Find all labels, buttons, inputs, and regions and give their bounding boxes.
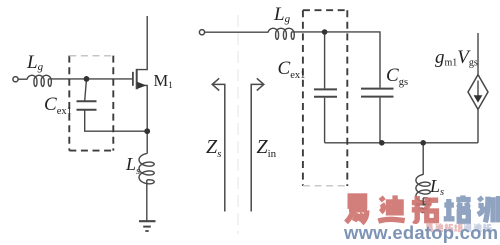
bottom wire	[325, 142, 478, 144]
inductor Lg (left)	[27, 75, 51, 86]
watermark red text 易迪拓 培训	[346, 196, 367, 223]
wire input to Lg right	[205, 31, 269, 33]
input terminal right	[199, 30, 204, 35]
transistor M1 gate bar	[132, 72, 134, 86]
label Lg (right)	[274, 4, 290, 26]
Zin arrow	[251, 84, 264, 211]
top wire to Cgs corner	[291, 32, 380, 88]
wire below source	[477, 109, 479, 142]
wire junction to Cex1	[324, 32, 326, 88]
wire to ground	[146, 180, 148, 221]
current source arrow	[477, 81, 479, 97]
wire to Cex1	[85, 80, 87, 101]
dashed box right: left edge	[303, 10, 347, 186]
inductor Ls (left)	[139, 154, 154, 184]
wire Cex1 to source node	[85, 111, 148, 132]
source wire	[137, 85, 148, 153]
dashed box left: bottom edge	[69, 150, 113, 152]
wire Ls down	[422, 143, 424, 175]
dashed box right: bottom edge (faded)	[303, 185, 347, 187]
ground (left)	[139, 220, 156, 222]
label M1	[154, 71, 173, 91]
junction dot top right	[322, 29, 328, 35]
label Ls (right)	[430, 176, 444, 198]
junction dot Ls top	[420, 140, 426, 146]
capacitor Cex1 (left) plates	[77, 100, 97, 102]
inductor Ls (right)	[416, 175, 430, 202]
dashed box right: top edge	[303, 9, 347, 11]
source arrow of M1	[137, 82, 146, 89]
watermark small pink text row	[426, 224, 432, 232]
label Cgs	[386, 65, 408, 88]
dashed box left: left edge	[69, 56, 113, 151]
dashed box right: right edge	[346, 10, 348, 186]
inductor Lg (right)	[268, 28, 294, 39]
wire Cgs down	[379, 98, 381, 143]
dashed box left: right edge	[112, 56, 114, 151]
wire Cex1 down	[324, 98, 326, 143]
current source arrowhead	[474, 95, 483, 102]
faint centre fold line	[237, 15, 239, 234]
label gm1Vgs	[435, 47, 478, 69]
label Cex1 (right)	[278, 58, 306, 81]
junction dot (gate node)	[84, 76, 90, 82]
dashed box left: top edge (faded)	[69, 55, 113, 57]
ground (right)	[416, 203, 432, 205]
junction dot (source node)	[144, 128, 150, 134]
label Ls (left)	[126, 154, 140, 177]
label Zs	[206, 136, 221, 160]
wire gate	[48, 78, 132, 80]
watermark url www.edatop.com	[344, 222, 498, 244]
label Cex1 (left)	[44, 94, 72, 117]
current source diamond gm1Vgs	[468, 75, 488, 110]
capacitor Cex1 (right) plates	[314, 88, 337, 90]
wire input to Lg left	[18, 78, 27, 80]
capacitor Cgs plates	[361, 88, 394, 90]
transistor M1 channel bar	[136, 69, 138, 89]
label Lg (left)	[27, 52, 43, 74]
wire to ground right	[422, 198, 424, 204]
junction dot Cgs bottom	[379, 140, 385, 146]
drain wire	[137, 16, 148, 70]
input terminal left	[13, 77, 18, 82]
current source stub	[477, 33, 479, 75]
Zs arrow	[212, 84, 225, 211]
label Zin	[257, 136, 277, 160]
